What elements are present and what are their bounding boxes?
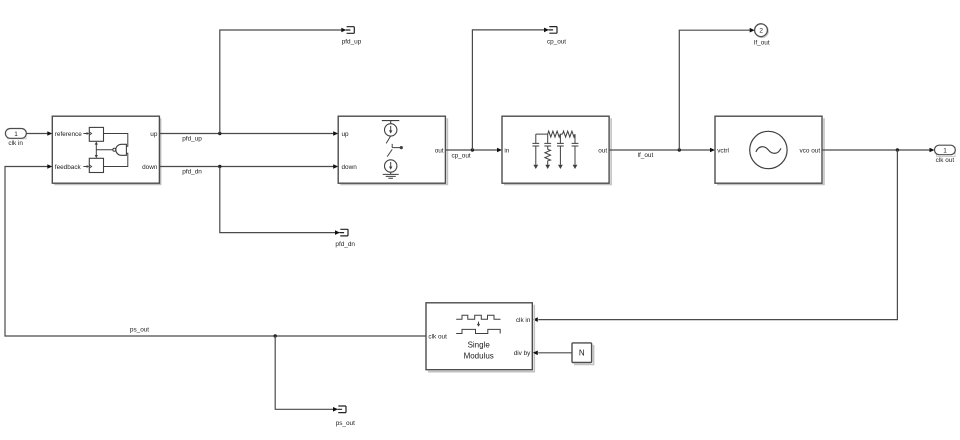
wire N to div by bbox=[533, 351, 572, 356]
loop filter resistor R2 bbox=[563, 131, 576, 137]
svg-text:vco out: vco out bbox=[799, 148, 820, 155]
PFD internal reference input arrow bbox=[83, 132, 89, 135]
svg-text:div by: div by bbox=[514, 350, 531, 357]
terminator pfd_up bbox=[342, 27, 362, 46]
wire loop filter out to VCO vctrl bbox=[609, 148, 715, 159]
charge pump current source I1 bbox=[385, 124, 397, 136]
node junction vco out bbox=[896, 148, 899, 151]
wire junction down to pfd_dn terminator bbox=[220, 167, 340, 235]
node junction cp_out bbox=[471, 148, 474, 151]
svg-text:1: 1 bbox=[943, 148, 947, 155]
svg-text:1: 1 bbox=[14, 131, 18, 138]
wire junction to cp_out terminator bbox=[472, 28, 549, 150]
node junction pfd_dn bbox=[218, 165, 221, 168]
loop filter resistor R1 bbox=[548, 131, 561, 137]
node junction lf_out bbox=[678, 148, 681, 151]
wire junction up to pfd_up terminator bbox=[220, 28, 346, 134]
loop filter capacitor C4 branch bbox=[572, 134, 579, 169]
loop filter capacitor C1 branch bbox=[532, 134, 539, 169]
svg-text:pfd_up: pfd_up bbox=[182, 135, 202, 142]
svg-text:reference: reference bbox=[55, 131, 82, 138]
loop filter capacitor C3 branch bbox=[557, 134, 564, 169]
svg-text:down: down bbox=[142, 164, 158, 171]
charge pump output node tick bbox=[392, 144, 403, 149]
wire single modulus clk out feedback to PFD feedback bbox=[5, 164, 426, 336]
PFD flip-flop FF2 bbox=[89, 158, 103, 172]
outport 2 lf_out bbox=[754, 24, 770, 46]
outport 1 clk out bbox=[935, 145, 956, 164]
loop filter capacitor C2 and resistor R3 branch bbox=[544, 134, 551, 169]
single modulus fast clock waveform bbox=[456, 315, 500, 319]
constant block N bbox=[572, 343, 594, 365]
svg-text:pfd_dn: pfd_dn bbox=[335, 241, 355, 248]
svg-text:pfd_dn: pfd_dn bbox=[182, 168, 202, 175]
charge pump block bbox=[338, 116, 447, 184]
PFD NAND gate U1 bbox=[96, 144, 126, 155]
PFD wire FF1 to NAND bbox=[104, 134, 128, 147]
svg-text:up: up bbox=[150, 131, 158, 138]
wire VCO out to outport clk out bbox=[822, 148, 935, 153]
PFD reset connector with arrows bbox=[95, 141, 98, 158]
svg-text:clk in: clk in bbox=[516, 317, 531, 324]
wire PFD up to charge pump up bbox=[159, 131, 338, 142]
wire junction to outport 2 bbox=[679, 28, 754, 150]
svg-text:vctrl: vctrl bbox=[717, 148, 729, 155]
svg-text:cp_out: cp_out bbox=[547, 39, 566, 46]
svg-text:feedback: feedback bbox=[55, 164, 82, 171]
svg-text:down: down bbox=[342, 164, 358, 171]
charge pump supply rail bbox=[382, 121, 400, 124]
svg-text:out: out bbox=[435, 148, 444, 155]
svg-text:ps_out: ps_out bbox=[336, 420, 355, 427]
VCO oscillator circle bbox=[750, 131, 787, 168]
node junction pfd_up bbox=[218, 132, 221, 135]
charge pump ground bbox=[383, 172, 399, 178]
svg-text:Single: Single bbox=[468, 341, 491, 350]
PFD flip-flop FF1 bbox=[89, 127, 103, 141]
wire inport to PFD reference bbox=[26, 131, 52, 136]
VCO block bbox=[715, 116, 824, 184]
PFD internal feedback input arrow bbox=[83, 165, 89, 168]
wire PFD down to charge pump down bbox=[159, 164, 338, 175]
loop filter top rail bbox=[536, 133, 563, 135]
single modulus divided clock waveform bbox=[456, 329, 500, 333]
loop filter block bbox=[502, 116, 611, 184]
terminator pfd_dn bbox=[335, 229, 355, 248]
svg-text:2: 2 bbox=[759, 28, 763, 35]
charge pump current source I2 bbox=[385, 160, 397, 172]
wire charge pump out to loop filter in bbox=[445, 148, 502, 160]
charge pump switch S2 bbox=[387, 149, 392, 156]
svg-text:clk out: clk out bbox=[428, 334, 447, 341]
svg-text:up: up bbox=[342, 131, 350, 138]
svg-text:cp_out: cp_out bbox=[452, 153, 471, 160]
node junction ps_out bbox=[274, 334, 277, 337]
svg-text:ps_out: ps_out bbox=[130, 326, 149, 333]
svg-text:lf_out: lf_out bbox=[638, 152, 654, 159]
single modulus divide arrow bbox=[477, 322, 480, 327]
single modulus block bbox=[426, 303, 534, 372]
svg-text:out: out bbox=[598, 148, 607, 155]
wire junction to ps_out terminator bbox=[275, 336, 338, 412]
wire vco junction down to single modulus clk in bbox=[533, 150, 898, 322]
terminator cp_out bbox=[547, 27, 566, 46]
terminator ps_out bbox=[336, 406, 355, 427]
PFD wire FF2 to NAND bbox=[104, 153, 128, 166]
svg-text:N: N bbox=[579, 349, 585, 358]
svg-text:Modulus: Modulus bbox=[464, 351, 494, 360]
svg-text:clk in: clk in bbox=[8, 140, 23, 147]
svg-text:lf_out: lf_out bbox=[754, 39, 770, 46]
svg-text:pfd_up: pfd_up bbox=[342, 39, 362, 46]
inport 1 clk in bbox=[5, 129, 26, 148]
svg-text:clk out: clk out bbox=[936, 157, 955, 164]
charge pump switch S1 bbox=[386, 136, 390, 143]
PFD block bbox=[52, 116, 160, 184]
svg-text:in: in bbox=[504, 148, 509, 155]
